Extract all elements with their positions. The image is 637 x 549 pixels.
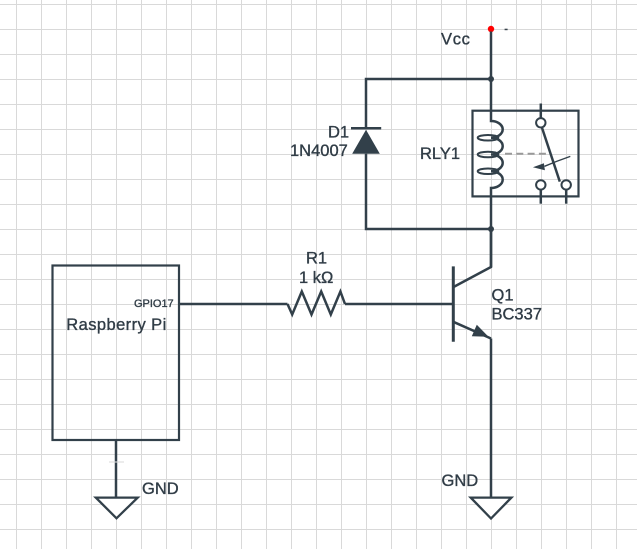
wire top rail (diode branch to relay branch) bbox=[366, 79, 491, 128]
svg-text:Vcc: Vcc bbox=[441, 31, 471, 49]
wire GPIO17 to R1 bbox=[179, 303, 288, 306]
junction bottom rail bbox=[488, 226, 494, 232]
svg-text:R1: R1 bbox=[306, 250, 327, 268]
svg-text:1N4007: 1N4007 bbox=[290, 142, 348, 160]
wire R1 to base bbox=[345, 303, 453, 306]
wire relay bottom to junction bbox=[490, 196, 493, 229]
wire diode branch lower and bottom rail bbox=[366, 154, 491, 229]
relay common contact circle bbox=[536, 118, 545, 127]
svg-text:GND: GND bbox=[142, 480, 179, 498]
wire Pi to ground bbox=[115, 440, 118, 498]
stray mark near Vcc bbox=[505, 29, 508, 31]
relay actuation dashed link bbox=[505, 153, 546, 155]
relay NO stub bbox=[565, 190, 568, 204]
wire Vcc down to top rail bbox=[490, 32, 493, 80]
transistor Q1 bbox=[453, 229, 491, 342]
power terminal Vcc (red dot) bbox=[488, 26, 494, 32]
svg-text:BC337: BC337 bbox=[492, 306, 542, 324]
relay NC stub bbox=[540, 190, 543, 204]
resistor R1 bbox=[288, 292, 346, 315]
wire top rail to relay bbox=[490, 79, 493, 111]
relay coil bbox=[491, 111, 503, 197]
svg-text:Raspberry Pi: Raspberry Pi bbox=[66, 316, 166, 334]
svg-text:GPIO17: GPIO17 bbox=[134, 298, 174, 310]
relay switch arm bbox=[542, 127, 560, 182]
svg-text:RLY1: RLY1 bbox=[420, 145, 460, 163]
Raspberry Pi block bbox=[53, 266, 180, 441]
svg-text:GND: GND bbox=[442, 472, 479, 490]
relay motion arrow bbox=[545, 156, 571, 166]
junction top rail bbox=[488, 76, 494, 82]
relay RLY1 bbox=[473, 104, 579, 204]
diode D1 bbox=[351, 128, 381, 153]
ground left bbox=[96, 498, 138, 519]
relay NO contact circle bbox=[562, 180, 571, 189]
svg-text:D1: D1 bbox=[328, 124, 349, 142]
wire emitter to ground bbox=[490, 339, 493, 498]
wire junction to collector bbox=[490, 229, 493, 267]
ground right bbox=[471, 498, 512, 519]
relay common contact stub bbox=[540, 104, 543, 119]
relay NC contact circle bbox=[536, 180, 545, 189]
svg-text:1 kΩ: 1 kΩ bbox=[299, 269, 333, 287]
svg-text:Q1: Q1 bbox=[492, 287, 514, 305]
connection tick mark bbox=[109, 461, 124, 463]
